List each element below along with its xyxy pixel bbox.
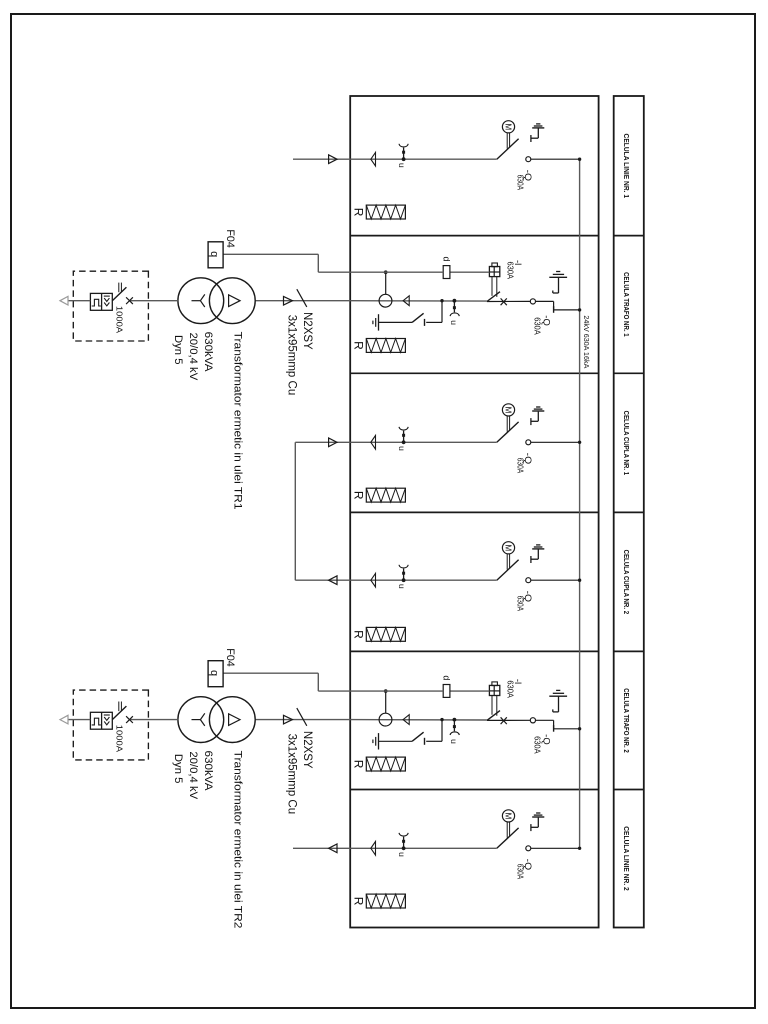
svg-text:630A: 630A	[506, 680, 515, 698]
svg-text:630A: 630A	[516, 175, 525, 191]
svg-text:u: u	[449, 739, 459, 744]
svg-text:CELULA TRAFO NR. 1: CELULA TRAFO NR. 1	[622, 272, 631, 337]
svg-text:CELULA CUPLA NR. 2: CELULA CUPLA NR. 2	[622, 550, 631, 615]
svg-text:u: u	[397, 446, 407, 451]
svg-text:Dyn 5: Dyn 5	[172, 754, 184, 784]
svg-text:u: u	[449, 320, 459, 325]
svg-text:N2XSY: N2XSY	[301, 731, 313, 769]
svg-text:24kV 630A 16kA: 24kV 630A 16kA	[582, 315, 591, 368]
svg-text:630A: 630A	[532, 317, 541, 335]
svg-text:u: u	[397, 584, 407, 589]
svg-text:20/0,4 kV: 20/0,4 kV	[187, 333, 199, 381]
svg-text:CELULA LINIE NR. 2: CELULA LINIE NR. 2	[622, 826, 631, 891]
svg-text:u: u	[397, 163, 407, 168]
svg-text:630A: 630A	[516, 864, 525, 880]
svg-text:630kVA: 630kVA	[202, 332, 214, 372]
svg-text:630A: 630A	[516, 596, 525, 612]
svg-text:R: R	[352, 341, 366, 350]
svg-text:d: d	[442, 257, 452, 262]
svg-text:Dyn 5: Dyn 5	[172, 335, 184, 365]
svg-text:630kVA: 630kVA	[202, 751, 214, 791]
svg-text:R: R	[352, 491, 366, 500]
svg-text:1000A: 1000A	[115, 306, 125, 334]
svg-text:q: q	[208, 251, 220, 257]
svg-text:CELULA TRAFO NR. 2: CELULA TRAFO NR. 2	[622, 688, 631, 753]
svg-text:3x1x95mmp Cu: 3x1x95mmp Cu	[286, 734, 298, 815]
svg-text:M: M	[503, 123, 512, 130]
svg-text:20/0,4 kV: 20/0,4 kV	[187, 751, 199, 799]
svg-text:1000A: 1000A	[115, 725, 125, 753]
svg-text:-Q: -Q	[541, 734, 551, 745]
svg-text:d: d	[442, 675, 452, 680]
svg-text:F04: F04	[224, 648, 236, 666]
svg-text:R: R	[352, 897, 366, 906]
svg-text:R: R	[352, 760, 366, 769]
svg-text:R: R	[352, 630, 366, 639]
svg-text:N2XSY: N2XSY	[301, 312, 313, 350]
svg-text:M: M	[503, 813, 512, 820]
svg-text:CELULA LINIE NR. 1: CELULA LINIE NR. 1	[622, 134, 631, 199]
svg-text:R: R	[352, 208, 366, 217]
svg-text:Transformator ermetic in ulei: Transformator ermetic in ulei TR2	[232, 751, 244, 929]
svg-text:u: u	[397, 852, 407, 857]
svg-text:CELULA CUPLA NR. 1: CELULA CUPLA NR. 1	[622, 411, 631, 476]
svg-text:630A: 630A	[516, 458, 525, 474]
svg-text:M: M	[503, 407, 512, 414]
svg-text:M: M	[503, 544, 512, 551]
svg-text:630A: 630A	[506, 262, 515, 280]
svg-text:3x1x95mmp Cu: 3x1x95mmp Cu	[286, 315, 298, 396]
svg-text:630A: 630A	[532, 736, 541, 754]
svg-text:Transformator ermetic in ulei: Transformator ermetic in ulei TR1	[232, 332, 244, 510]
svg-text:q: q	[208, 670, 220, 676]
svg-text:F04: F04	[224, 229, 236, 247]
svg-text:-Q: -Q	[541, 315, 551, 326]
